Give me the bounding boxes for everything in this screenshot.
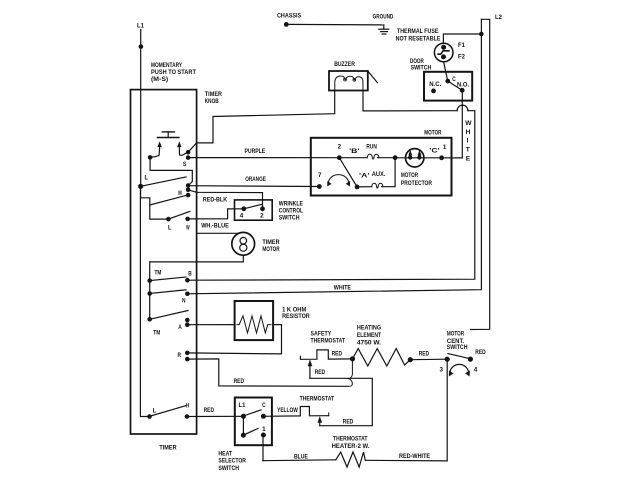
svg-text:W: W [465,120,472,127]
svg-text:M: M [178,190,182,197]
svg-text:RUN: RUN [366,144,377,151]
svg-text:I: I [467,138,469,145]
svg-text:RED: RED [234,378,245,385]
operating thermostat [263,395,353,425]
pin 2 wrinkle [260,206,265,219]
motor arm 2 to aux [339,158,357,187]
svg-text:C: C [262,402,266,409]
push button M-S [157,132,179,138]
svg-text:B: B [188,271,192,278]
buzzer switch arm [368,71,378,83]
wire L1 to lower contact [242,416,244,435]
run winding [339,144,395,160]
wire push contact to M1 [150,157,192,185]
aux contact junction [355,185,360,190]
svg-text:L: L [153,408,157,415]
svg-text:2: 2 [338,144,342,151]
junction L1 dot [139,44,144,49]
svg-text:CHASSIS: CHASSIS [277,12,302,19]
wire L2 branch to thermal fuse and N [187,19,481,294]
svg-text:MOTOR: MOTOR [447,330,464,337]
wire resistor to R upper [187,325,281,354]
junction chassis dot [284,22,289,27]
svg-text:L: L [168,225,172,232]
push button right arrow [178,142,188,155]
node R [178,351,190,362]
heat selector arm L1 to C [244,410,261,416]
node L1 [137,23,144,30]
svg-text:2: 2 [260,213,264,220]
svg-text:AUX.: AUX. [372,171,386,178]
node L timer bottom [147,408,156,419]
wrinkle control switch S2 [235,200,304,222]
timer box [131,90,223,452]
node B [185,271,192,283]
aux winding [357,158,395,188]
door switch U2 [410,58,472,100]
motor cent arc arrow [328,175,350,186]
junction run/aux [393,155,398,160]
node TM contacts [147,269,161,336]
wire safety arm to op thermostat arm [310,378,372,425]
svg-text:WH.-BLUE: WH.-BLUE [201,223,229,230]
wire fuse top to L2 branch [443,34,481,43]
svg-text:L1: L1 [239,402,246,409]
junction heater right [408,357,413,362]
wire L2 main drop [471,19,490,329]
wire WH.-BLUE W to wrinkle switch pin 4 [188,209,244,230]
door switch arm C to N.O. [448,81,462,90]
label 'B' [349,148,360,155]
pin F2 [458,53,465,60]
node M contacts [178,183,190,197]
svg-text:L2: L2 [495,14,502,21]
svg-text:KNOB: KNOB [205,98,219,105]
svg-text:TM: TM [153,329,160,336]
svg-text:F1: F1 [458,42,465,49]
svg-text:PUSH TO START: PUSH TO START [151,69,196,76]
wire hop over white wire [457,105,468,111]
svg-text:ORANGE: ORANGE [245,176,266,183]
wire PURPLE S to motor pin 2 [188,148,339,158]
cent switch arm 3-4 [448,354,469,359]
svg-text:W: W [186,224,190,231]
svg-text:HEATER-2 W.: HEATER-2 W. [332,443,370,450]
motor cent. switch S3 [447,330,468,351]
pin 4 cent switch [468,357,478,374]
svg-text:BUZZER: BUZZER [334,61,355,68]
timer arm L to W (open) [168,211,190,219]
svg-text:SWITCH: SWITCH [218,465,239,472]
wire chassis to ground [286,23,384,26]
heat selector switch S4 [218,398,272,472]
cent switch arc arrow [449,364,470,376]
pin C heat selector [261,402,266,419]
wire protector to pin 1 [395,157,442,159]
wire pin1 heat selector down to BLUE [262,435,264,461]
svg-text:THERMOSTAT: THERMOSTAT [311,338,346,345]
pin 7 motor [317,172,322,189]
wrinkle switch arm [244,204,262,209]
thermal fuse F1-F2 label [396,28,441,42]
junction fuse branch dot [479,32,484,37]
svg-text:CONTROL: CONTROL [279,207,303,214]
label RED-WHITE [399,453,431,460]
svg-text:7: 7 [318,172,322,179]
node A [178,318,189,331]
heating element R2 4750W [353,325,411,366]
node N [182,292,190,305]
pin 4 wrinkle [240,206,247,219]
svg-text:RED: RED [315,369,326,376]
wire L step to lower L contact [141,186,169,219]
svg-text:R: R [178,352,182,359]
svg-text:H: H [466,129,471,136]
svg-text:WHITE: WHITE [334,285,352,292]
svg-text:ELEMENT: ELEMENT [357,332,381,339]
svg-text:THERMAL FUSE: THERMAL FUSE [397,28,439,35]
svg-text:RED: RED [343,419,354,426]
svg-text:'A': 'A' [359,173,370,180]
pin N.C. [429,81,441,93]
wire buzzer right leg to B-wire riser [363,91,457,111]
node S [183,150,191,168]
wire R lower RED to heater junction [187,359,352,386]
svg-text:PROTECTOR: PROTECTOR [401,180,432,187]
timer motor TM [232,232,280,255]
pin 3 cent switch [440,357,450,374]
svg-text:3: 3 [440,366,444,373]
label 'C' [429,147,440,154]
svg-text:N: N [182,297,186,304]
svg-text:S: S [183,161,187,168]
wire RED-BLK M to wrinkle switch pin 2 [188,190,262,209]
wire pin3 down to heater-2 [365,359,447,461]
svg-text:HEAT: HEAT [218,450,232,457]
wire timer motor top [197,232,239,234]
heat selector lower contact [241,433,246,438]
buzzer BZ1 [329,61,368,90]
svg-text:RED-BLK: RED-BLK [203,197,227,204]
svg-text:SWITCH: SWITCH [447,344,468,351]
svg-text:4: 4 [474,366,478,373]
wire RED H to heat selector L1 [187,407,244,416]
timer arm L to M contact [150,195,187,205]
node W contact [185,217,190,232]
wire hop to riser corner [187,111,474,281]
pin 1 heat selector [261,426,266,437]
svg-text:MOMENTARY: MOMENTARY [151,62,183,69]
pin 1 motor [439,144,447,160]
wire pin1 to box edge [442,157,452,159]
svg-text:4750 W.: 4750 W. [357,340,381,347]
svg-text:MOTOR: MOTOR [262,246,279,253]
resistor R1 1K [235,301,310,340]
wire door N.O. down to motor pin 1 [452,90,463,158]
svg-text:MOTOR: MOTOR [401,172,418,179]
svg-text:SAFETY: SAFETY [311,330,332,337]
svg-text:MOTOR: MOTOR [424,129,441,136]
pin N.O. [457,82,469,93]
svg-text:RED: RED [475,349,486,356]
wire fuse bottom to door switch C [444,62,448,81]
timer arm L to H [150,406,186,417]
label RED (pin 4) [475,349,486,356]
label 'A' [359,173,370,180]
svg-text:TM: TM [155,269,162,276]
timer arm TM to A (open) [150,311,188,320]
svg-text:TIMER: TIMER [262,239,279,246]
svg-text:WRINKLE: WRINKLE [279,200,304,207]
heat selector arm lower to 1 [244,429,258,435]
svg-text:RED: RED [204,407,215,414]
node L lower contact [166,217,171,232]
wire L1 feed [140,30,142,187]
motor box U1 [311,129,452,195]
pin C door [445,76,456,84]
svg-text:1: 1 [262,426,266,433]
svg-text:E: E [466,156,471,163]
svg-text:'C': 'C' [429,147,440,154]
svg-text:T: T [466,146,470,153]
svg-text:L: L [145,175,149,182]
node H timer bottom [185,403,190,419]
label WHITE vertical [465,120,472,162]
wire RED heater to cent switch 3 [410,351,447,360]
wire S to buzzer [188,91,335,153]
junction push left contact [148,155,153,160]
timer arm TM to B [150,277,186,281]
svg-text:1: 1 [443,144,447,151]
safety thermostat [300,330,352,378]
svg-text:SELECTOR: SELECTOR [218,458,246,465]
svg-text:L1: L1 [137,23,144,30]
label MOMENTARY PUSH TO START [151,62,196,83]
svg-text:TIMER: TIMER [159,444,176,451]
svg-text:NOT RESETABLE: NOT RESETABLE [396,35,441,42]
wire timer motor bottom to TM contacts [150,255,244,280]
svg-text:F2: F2 [458,53,465,60]
pin L1 heat selector [239,402,246,419]
svg-text:BLUE: BLUE [294,453,308,460]
push button left arrow [150,142,161,157]
svg-text:RED: RED [332,351,343,358]
junction heater left [350,356,355,361]
svg-text:(M-S): (M-S) [151,76,168,83]
svg-text:N.C.: N.C. [429,81,441,88]
pin F1 [458,42,465,49]
node CHASSIS [277,12,302,19]
svg-text:GROUND: GROUND [373,14,394,21]
label RED (heater left) [332,351,343,358]
svg-text:C: C [452,76,456,83]
svg-text:THERMOSTAT: THERMOSTAT [333,436,368,443]
svg-text:SWITCH: SWITCH [411,65,432,72]
svg-text:'B': 'B' [349,148,360,155]
svg-text:PURPLE: PURPLE [245,148,266,155]
label WHITE (N wire) [334,285,352,292]
node L2 [495,14,502,21]
pin 2 motor [337,144,342,161]
wire L down to bottom row [140,186,149,416]
wire BLUE heat selector to heater-2 [263,453,336,460]
wire A to resistor [187,324,234,326]
svg-text:SWITCH: SWITCH [279,215,300,222]
timer arm L to S (open) [141,177,187,186]
ground [373,14,394,34]
svg-text:YELLOW: YELLOW [277,407,298,414]
wire ORANGE M to motor pin 7 [188,176,319,187]
svg-text:A: A [178,324,182,331]
thermal fuse [434,43,453,62]
svg-text:THERMOSTAT: THERMOSTAT [300,395,335,402]
thermostat heater R3 2W [332,436,370,468]
svg-text:TIMER: TIMER [205,91,222,98]
node L (timer main) [138,175,148,189]
svg-text:RESISTOR: RESISTOR [282,313,310,320]
motor protector [401,149,432,187]
timer arm TM to N [150,290,186,294]
svg-text:4: 4 [240,213,244,220]
svg-text:HEATING: HEATING [357,325,381,332]
label YELLOW [277,407,298,414]
svg-text:RED: RED [419,351,430,358]
svg-text:RED-WHITE: RED-WHITE [399,453,431,460]
